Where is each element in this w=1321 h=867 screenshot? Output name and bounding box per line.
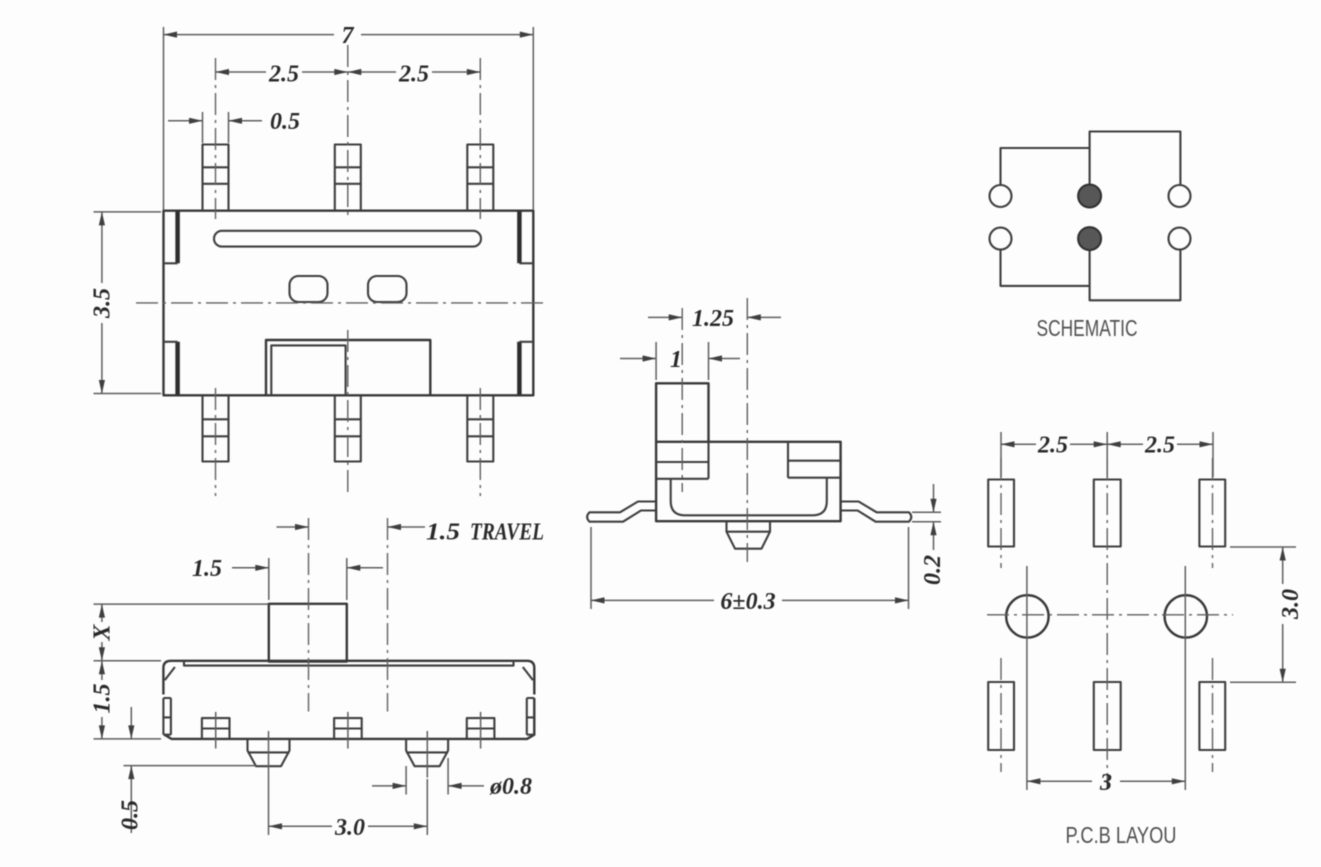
dimension 2.5 pcb left: [1001, 432, 1213, 477]
dimension 1.5 TRAVEL: [277, 520, 545, 546]
top-left corner tab: [164, 212, 178, 264]
hole extension line left: [1026, 566, 1028, 790]
schematic wire lower-left: [1001, 250, 1090, 286]
pad bottom-middle: [1094, 682, 1121, 750]
dimension 1: [620, 342, 740, 380]
hole circle right: [1165, 595, 1207, 637]
top pin 3: [467, 145, 493, 211]
svg-text:2.5: 2.5: [1144, 433, 1175, 459]
dimension 1.5 body height: [90, 661, 162, 739]
svg-text:1.5: 1.5: [426, 520, 460, 546]
svg-text:P.C.B LAYOU: P.C.B LAYOU: [1066, 822, 1177, 848]
top pin 1: [203, 145, 229, 211]
side body centerline: [746, 298, 748, 562]
pad top-right: [1199, 480, 1225, 547]
top pin 2: [335, 145, 361, 211]
terminal circle left-bottom: [990, 228, 1012, 250]
hole circle left: [1006, 595, 1048, 637]
front pin stub 2: [334, 712, 362, 749]
dimension 1.5 knob width: [192, 556, 383, 600]
svg-text:2.5: 2.5: [1037, 433, 1068, 459]
bottom pin 3: [467, 395, 493, 461]
svg-text:X: X: [90, 624, 116, 642]
dimension 0.2: [912, 484, 946, 585]
dimension 6 +-0.3: [591, 527, 909, 615]
front pin stub 3: [467, 712, 495, 749]
svg-text:1: 1: [670, 347, 682, 373]
dimension 3.0 pcb vertical: [1230, 547, 1304, 682]
obround hole left: [290, 276, 328, 302]
terminal circle right-bottom: [1169, 228, 1191, 250]
terminal circle mid-bottom (filled): [1078, 227, 1101, 250]
left solder foot: [248, 731, 290, 778]
svg-text:2.5: 2.5: [268, 62, 299, 88]
side knob: [656, 383, 708, 442]
terminal circle mid-top (filled): [1078, 185, 1101, 208]
obround hole right: [368, 276, 407, 302]
dimension 3.5: [90, 212, 162, 394]
pad top-left: [988, 480, 1014, 547]
pin 2 centerline top: [347, 45, 349, 219]
pcb horizontal centerline: [987, 614, 1233, 616]
knob centerline: [308, 518, 310, 712]
pad centerline right column: [1212, 458, 1214, 772]
svg-text:1.25: 1.25: [692, 306, 734, 332]
pin 2 centerline bottom: [347, 330, 349, 496]
top view body outline: [164, 211, 534, 396]
schematic box bottom: [1090, 250, 1181, 301]
svg-text:0.2: 0.2: [920, 555, 946, 585]
svg-text:3.5: 3.5: [90, 288, 116, 319]
bottom pin 1: [203, 395, 229, 461]
right side tab: [527, 698, 535, 735]
side body outline: [656, 442, 841, 521]
pin 3 centerline top: [479, 58, 481, 219]
right step block: [788, 442, 841, 478]
pin 1 centerline top: [215, 58, 217, 219]
travel centerline: [387, 518, 389, 712]
knob: [269, 604, 347, 662]
inner cavity: [671, 478, 827, 516]
dimension 2.5 pcb right: [1107, 433, 1213, 459]
side knob centerline: [681, 308, 683, 492]
pad bottom-left: [988, 682, 1014, 750]
dimension 0.5 pin width: [168, 109, 300, 143]
terminal circle left-top: [990, 185, 1012, 207]
right solder foot: [406, 731, 448, 778]
left side tab: [163, 698, 171, 735]
slider slot: [214, 231, 481, 247]
dimension 0.5 foot height: [118, 707, 257, 833]
dimension 3 pcb horizontal: [1027, 770, 1185, 796]
terminal circle right-top: [1169, 185, 1191, 207]
pin 1 centerline bottom: [215, 388, 217, 496]
svg-text:3: 3: [1099, 770, 1112, 796]
svg-text:6±0.3: 6±0.3: [720, 589, 775, 615]
svg-text:1.5: 1.5: [192, 556, 222, 582]
svg-text:0.5: 0.5: [270, 109, 300, 135]
svg-text:SCHEMATIC: SCHEMATIC: [1037, 315, 1138, 341]
dimension 1.25: [648, 306, 781, 332]
pad centerline left column: [1000, 458, 1002, 772]
dimension 2.5 right: [348, 62, 481, 88]
svg-text:2.5: 2.5: [398, 62, 429, 88]
bottom pin 2: [335, 395, 361, 461]
right gull-wing lead: [841, 502, 912, 522]
left corner chamfer line: [165, 667, 175, 680]
dimension 3.0 feet spacing: [269, 778, 428, 842]
svg-text:7: 7: [342, 23, 355, 49]
svg-text:ø0.8: ø0.8: [489, 774, 532, 800]
svg-text:3.0: 3.0: [334, 815, 365, 841]
dimension X: [90, 604, 269, 661]
schematic wire upper-left: [1001, 148, 1090, 185]
schematic box top: [1090, 132, 1181, 186]
top view horizontal centerline: [136, 302, 546, 304]
bottom notch outer: [266, 340, 430, 395]
svg-text:3.0: 3.0: [1278, 589, 1304, 620]
front view body outline: [163, 661, 534, 739]
bottom notch inner: [271, 345, 345, 395]
pad centerline middle column: [1106, 458, 1108, 788]
right corner chamfer line: [523, 667, 533, 680]
pin 3 centerline bottom: [479, 388, 481, 496]
pad bottom-right: [1199, 682, 1225, 750]
hole extension line right: [1184, 566, 1186, 790]
left gull-wing lead: [587, 502, 656, 522]
knob base lines: [656, 442, 708, 479]
front pin stub 1: [202, 712, 230, 749]
dimension diameter 0.8: [372, 758, 532, 800]
pad top-middle: [1094, 480, 1121, 547]
bottom-left corner tab: [164, 342, 178, 395]
svg-text:0.5: 0.5: [118, 800, 144, 830]
svg-text:1.5: 1.5: [90, 684, 116, 714]
bottom-right corner tab: [519, 342, 533, 395]
dimension 2.5 left: [216, 62, 348, 88]
top-right corner tab: [519, 212, 533, 264]
dimension 7: [164, 23, 534, 210]
svg-text:TRAVEL: TRAVEL: [470, 520, 544, 546]
side center foot: [727, 521, 771, 549]
top plate line: [184, 661, 514, 666]
